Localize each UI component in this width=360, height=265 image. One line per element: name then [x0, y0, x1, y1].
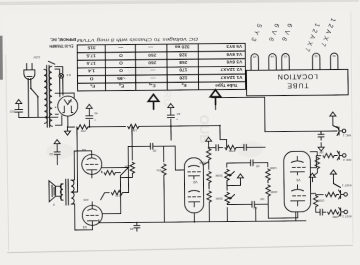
- V4 plate wire to output transformer: [74, 151, 92, 180]
- junction dot rail C9: [170, 125, 172, 127]
- input jack J2: [339, 190, 348, 199]
- svg-text:INST 2: INST 2: [342, 214, 352, 218]
- svg-text:V5 5Y3: V5 5Y3: [226, 43, 242, 49]
- T1 5V winding leads: [55, 107, 58, 114]
- R19 lead wires: [100, 167, 128, 199]
- svg-text:Esg: Esg: [149, 83, 156, 89]
- svg-text:V1: V1: [296, 178, 300, 182]
- T2 core lines: [66, 179, 69, 205]
- mixing cap C6: [213, 145, 222, 151]
- table row V2 values: [88, 66, 243, 73]
- svg-text:17.5: 17.5: [86, 60, 96, 66]
- svg-text:INST 1: INST 1: [342, 183, 352, 187]
- wires joining R17 R18 column: [208, 160, 211, 222]
- cathode resistor R6: [266, 169, 271, 180]
- paper smudge 4: [288, 72, 310, 86]
- svg-text:1M: 1M: [260, 197, 265, 201]
- speaker SP1 cone: [49, 181, 56, 202]
- output transformer T2 windings primary: [71, 180, 74, 204]
- stub bias wire to C3 area: [255, 207, 257, 221]
- svg-text:17.5: 17.5: [86, 52, 96, 58]
- V4 internals: [86, 154, 98, 174]
- V3 internals: [86, 205, 98, 225]
- input jack J3: [337, 151, 346, 160]
- T1 primary winding: [44, 69, 48, 123]
- volume pot R7: [225, 192, 230, 203]
- C10 top lead wire across to transformer: [19, 116, 58, 118]
- stub bias wire to screen node: [163, 175, 165, 222]
- T1 heater leads 6.3V: [48, 61, 62, 74]
- rectifier tube V5 5Y3: [58, 96, 78, 116]
- svg-text:—: —: [150, 67, 155, 72]
- AC plug P1 body: [24, 70, 35, 80]
- svg-text:.02: .02: [49, 152, 54, 156]
- wire pot to tone ground: [227, 182, 241, 185]
- pots junction wire: [226, 181, 228, 191]
- svg-text:—: —: [150, 75, 155, 80]
- speaker SP1 driver: [56, 186, 62, 196]
- ground under C10: [16, 100, 22, 109]
- svg-text:1M: 1M: [319, 151, 324, 155]
- wire J4 sleeve to ground: [333, 120, 337, 127]
- svg-text:Eg: Eg: [119, 83, 124, 89]
- svg-text:1.4: 1.4: [88, 68, 95, 74]
- paper smudge 3: [237, 141, 263, 157]
- svg-text:.05: .05: [256, 164, 261, 168]
- line bypass cap C10: [15, 108, 23, 118]
- screen resistor R19: [111, 190, 122, 195]
- power transformer T1 secondary winding: [49, 66, 53, 126]
- table header row labels: [90, 82, 238, 89]
- svg-text:470K: 470K: [227, 149, 235, 153]
- svg-text:+: +: [176, 118, 178, 122]
- B+ rail wire: [68, 115, 220, 127]
- coupling cap C3: [249, 201, 258, 207]
- T2 primary lead wires: [71, 180, 75, 204]
- svg-text:V2: V2: [193, 180, 197, 184]
- V3 plate wire to output transformer: [75, 204, 93, 230]
- plate resistor R5: [266, 185, 271, 196]
- wire J3 to V1 lower grid: [310, 155, 337, 167]
- V1 plate load wire up: [268, 196, 298, 218]
- svg-text:270: 270: [115, 194, 120, 198]
- ground at jack J4: [330, 112, 336, 121]
- svg-text:V5: V5: [68, 99, 72, 103]
- svg-text:320 ea: 320 ea: [175, 44, 190, 50]
- ground under R10: [206, 137, 212, 146]
- voltage table column lines: [105, 44, 198, 91]
- wire J2 to grid node: [316, 193, 339, 195]
- wire R11 to B+ rail: [120, 126, 132, 177]
- wire C7 to output grids: [102, 146, 148, 167]
- R8 wiper arrow: [229, 171, 234, 176]
- V1 lower triode internals: [290, 156, 305, 175]
- V4 cathode stub: [91, 174, 93, 205]
- scanner bottom edge band: [0, 0, 359, 5]
- svg-text:Ep: Ep: [181, 82, 186, 88]
- svg-text:258: 258: [179, 59, 187, 65]
- svg-text:500K: 500K: [198, 161, 206, 165]
- bypass cap C2: [318, 131, 324, 140]
- svg-text:500K: 500K: [214, 197, 222, 201]
- phase inverter tube V2 12AX7 envelope: [184, 158, 204, 213]
- ground for tone stack: [237, 174, 243, 183]
- junction dot bias-V2: [193, 221, 195, 223]
- svg-text:.022: .022: [9, 110, 15, 114]
- svg-text:115V: 115V: [32, 55, 40, 59]
- coupling cap C4: [247, 160, 256, 166]
- stub bias wire to V1: [295, 212, 297, 221]
- fuse wire: [60, 74, 63, 77]
- wire C4 to pot R8: [227, 163, 248, 167]
- bypass cap C11 on bias wire: [134, 222, 140, 231]
- tail resistor R12: [162, 164, 167, 175]
- svg-text:V2: V2: [314, 54, 318, 58]
- paper smudge 1: [46, 143, 74, 159]
- OT center tap to rail: [72, 127, 77, 192]
- svg-text:220: 220: [83, 198, 88, 202]
- svg-text:V3: V3: [83, 225, 87, 229]
- grid stopper R2: [313, 195, 318, 206]
- grid resistor R1: [328, 210, 339, 215]
- switch contact dot B: [37, 96, 39, 98]
- grid resistor R4: [323, 153, 334, 158]
- svg-text:100K: 100K: [269, 190, 277, 194]
- plate resistor R17: [207, 191, 212, 202]
- svg-text:6.3: 6.3: [66, 73, 71, 77]
- svg-text:MIC 2: MIC 2: [343, 158, 352, 162]
- screen dropping resistor R11: [130, 162, 135, 173]
- grid resistor R3: [325, 192, 336, 197]
- switch contact dot A: [30, 88, 32, 90]
- svg-text:TUBE: TUBE: [286, 81, 308, 88]
- C12 lead wire: [56, 158, 58, 165]
- junction dot rail C8: [88, 126, 90, 128]
- V1 upper triode internals: [291, 185, 306, 206]
- junction dot C7 node: [127, 167, 129, 169]
- grid cap C1: [317, 209, 326, 215]
- cathode resistor R16: [315, 157, 320, 168]
- svg-text:47K: 47K: [155, 168, 161, 172]
- tone pot R8: [225, 169, 230, 180]
- ground at V1 cathode: [309, 173, 315, 182]
- svg-text:25: 25: [130, 227, 134, 231]
- V2 lower triode internals: [188, 165, 201, 179]
- V5 internals: [63, 100, 73, 113]
- svg-text:O: O: [119, 67, 123, 73]
- wire C3 to pot R7 top: [227, 203, 249, 204]
- tube socket outline V1 12AX7: [330, 53, 338, 70]
- svg-text:10K: 10K: [131, 128, 137, 132]
- wire R13 ends: [102, 171, 121, 173]
- svg-text:—: —: [148, 44, 153, 49]
- V2 upper triode internals: [188, 190, 201, 207]
- coupling cap C7 to outputs: [147, 143, 156, 149]
- svg-text:V3: V3: [283, 54, 287, 58]
- plug prong 1: [31, 63, 33, 69]
- svg-text:+: +: [94, 118, 96, 122]
- T1 core lines: [47, 65, 50, 127]
- wire V2 plate to C7: [156, 146, 184, 170]
- stub bias wire to pot top: [226, 208, 228, 222]
- svg-text:-.65: -.65: [117, 75, 126, 81]
- preamp tube V1 12AX7 envelope: [284, 151, 311, 212]
- svg-text:40: 40: [94, 111, 98, 115]
- scanner edge shadow band: [0, 36, 3, 80]
- svg-text:V4 6V6: V4 6V6: [226, 51, 242, 57]
- svg-text:V2 12AX7: V2 12AX7: [220, 66, 242, 72]
- tube socket outline V3 6V6: [282, 53, 290, 70]
- paper smudge 2: [127, 63, 151, 77]
- input jack J1: [339, 207, 348, 216]
- plug cord conductor B: [27, 78, 29, 117]
- V2 top lead to bias wire: [193, 213, 195, 222]
- wire J4 along bottom to feedback node: [265, 130, 337, 133]
- switch SW1: [31, 88, 38, 117]
- feedback wire L-run: [212, 97, 265, 132]
- ground at input jacks: [330, 170, 336, 179]
- junction dot chain-grid: [208, 147, 210, 149]
- sheet border right: [6, 55, 9, 251]
- mixing resistor R9: [225, 145, 236, 150]
- svg-text:MIC 1: MIC 1: [342, 133, 351, 137]
- svg-text:170: 170: [179, 67, 187, 73]
- svg-text:Ek: Ek: [90, 83, 95, 89]
- ground under C9: [168, 104, 174, 113]
- ground under table left: [148, 94, 159, 109]
- sheet border left: [351, 11, 353, 243]
- svg-text:O: O: [119, 52, 123, 58]
- svg-text:1500: 1500: [317, 199, 324, 203]
- table row V5 values: [87, 43, 242, 50]
- svg-text:500K: 500K: [214, 174, 222, 178]
- svg-text:V5: V5: [253, 55, 257, 59]
- table row V4 values: [86, 51, 242, 58]
- filter resistor R14: [128, 124, 139, 129]
- tube socket outline V4 6V6: [269, 54, 277, 71]
- svg-text:Tube Type: Tube Type: [215, 83, 238, 88]
- input jack J4: [337, 126, 346, 135]
- svg-text:LOCATION: LOCATION: [277, 72, 318, 79]
- svg-text:250: 250: [148, 52, 156, 58]
- plug cord conductor A: [30, 78, 32, 87]
- svg-text:—: —: [118, 44, 123, 49]
- heater wires to V5 filament: [60, 78, 63, 97]
- HV center-tap ground: [64, 127, 70, 136]
- rail drop wire to preamp: [220, 126, 227, 148]
- svg-text:260: 260: [148, 59, 156, 65]
- R6 to ground wire: [256, 163, 268, 183]
- stub above C9: [170, 126, 172, 140]
- svg-text:EPIPHONE, INC.: EPIPHONE, INC.: [50, 37, 76, 42]
- wire chain into V2 grid: [209, 146, 266, 148]
- ground above C2: [318, 143, 324, 152]
- ground under table right: [210, 90, 221, 105]
- tone cap C12 across output: [54, 149, 60, 158]
- output tube V4 6V6: [82, 154, 102, 174]
- voltage table row lines: [77, 51, 245, 83]
- svg-text:315: 315: [87, 45, 95, 51]
- tube socket outline V2 12AX7: [312, 53, 320, 70]
- plug prong 2: [26, 63, 28, 69]
- ground under C8: [86, 104, 92, 113]
- svg-text:O: O: [89, 75, 93, 81]
- svg-text:V1 12AX7: V1 12AX7: [220, 74, 242, 80]
- T1 HV lead to V5 plate: [55, 116, 62, 126]
- wire R10 into V2: [203, 160, 209, 165]
- R16 wires: [310, 152, 317, 176]
- plate feed resistor R13: [104, 170, 115, 175]
- filter cap C8: [86, 113, 93, 127]
- svg-text:68K: 68K: [331, 215, 337, 219]
- stub to right ground: [215, 105, 217, 110]
- svg-text:270: 270: [81, 129, 86, 133]
- svg-text:20: 20: [177, 112, 181, 116]
- svg-text:O: O: [119, 60, 123, 66]
- svg-text:120: 120: [179, 74, 187, 80]
- svg-text:.05: .05: [153, 149, 158, 153]
- wire R5 top to C3: [258, 196, 269, 207]
- svg-text:100K: 100K: [269, 166, 277, 170]
- ground under C12: [54, 140, 60, 149]
- svg-text:V3 6V6: V3 6V6: [226, 58, 242, 64]
- filter cap C9: [167, 112, 174, 126]
- svg-text:328: 328: [179, 51, 187, 57]
- svg-text:EA-30 TRIUMPH: EA-30 TRIUMPH: [49, 44, 74, 49]
- svg-text:V1: V1: [332, 54, 336, 58]
- wire J1 chain to V1 grid: [311, 193, 326, 212]
- branch to V3 grid: [102, 167, 129, 213]
- svg-text:8: 8: [53, 203, 55, 207]
- table row V1 values: [89, 74, 242, 81]
- wire R12 down: [156, 146, 164, 162]
- tube location box: [246, 69, 348, 95]
- T1 HV lower lead: [55, 93, 74, 98]
- voltage table outer frame: [77, 43, 245, 91]
- V2 input cap C5: [241, 144, 250, 150]
- table row V3 values: [86, 58, 242, 65]
- filter resistor R15: [77, 125, 88, 130]
- tube socket outline V5 5Y3: [251, 54, 259, 71]
- R7 wiper arrow: [230, 194, 235, 199]
- svg-text:V4: V4: [270, 54, 274, 58]
- long grid bias wire: [99, 218, 306, 223]
- grid leak R10: [206, 149, 211, 160]
- output tube V3 6V6: [82, 205, 102, 225]
- sheet border top: [7, 245, 353, 252]
- fuse F1: [59, 74, 64, 79]
- junction dot rail-V2 feed: [219, 125, 221, 127]
- wire jack sleeve to ground: [333, 178, 340, 187]
- T2 secondary lead to speaker: [61, 184, 63, 200]
- T2 secondary winding: [60, 184, 63, 200]
- grid resistor R18: [207, 172, 212, 183]
